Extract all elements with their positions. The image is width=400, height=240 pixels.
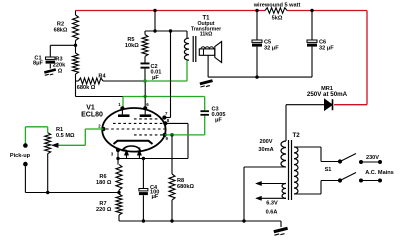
svg-text:680kΩ: 680kΩ [177,184,194,190]
svg-text:10kΩ: 10kΩ [125,43,139,49]
svg-text:μF: μF [152,194,159,200]
svg-text:S1: S1 [325,167,332,173]
svg-text:8μF: 8μF [33,61,44,67]
svg-text:5kΩ: 5kΩ [272,16,283,22]
svg-text:R4: R4 [98,74,106,80]
svg-text:μF: μF [215,118,222,124]
svg-text:220 Ω: 220 Ω [96,207,112,213]
svg-text:68kΩ: 68kΩ [54,28,68,34]
svg-text:0.5 MΩ: 0.5 MΩ [56,133,75,139]
svg-text:32 μF: 32 μF [319,46,334,52]
svg-text:A.C. Mains: A.C. Mains [365,170,394,176]
svg-text:wirewound 5 watt: wirewound 5 watt [253,3,301,9]
svg-text:ECL80: ECL80 [81,112,103,119]
svg-text:Pick-up: Pick-up [10,153,31,159]
svg-text:30mA: 30mA [258,147,273,153]
svg-text:200V: 200V [259,139,272,145]
svg-text:V1: V1 [86,105,95,112]
svg-text:680k Ω: 680k Ω [77,85,96,91]
svg-text:6.3V: 6.3V [266,201,278,207]
svg-text:230V: 230V [366,155,379,161]
svg-text:250V at 50mA: 250V at 50mA [307,91,348,98]
svg-text:T2: T2 [293,132,301,139]
svg-text:11kΩ: 11kΩ [200,32,213,38]
svg-text:μF: μF [152,75,159,81]
svg-text:180 Ω: 180 Ω [96,180,112,186]
svg-text:0.6A: 0.6A [266,210,278,216]
svg-text:32 μF: 32 μF [264,46,279,52]
svg-text:Ω: Ω [58,69,63,75]
